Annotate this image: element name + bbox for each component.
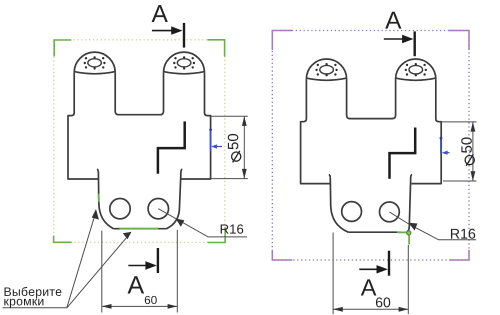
blue pick arrow: [213, 146, 222, 148]
selected edge highlights (green): [99, 194, 159, 229]
section line (thick): [158, 121, 185, 173]
label A top right view: [385, 12, 401, 29]
bolt ellipse towers right view: [320, 65, 423, 74]
callout text: [5, 287, 62, 299]
tower 1 dome: [74, 52, 115, 72]
callout leaders (select edges): [3, 212, 131, 308]
R16 text left: [221, 224, 244, 233]
purple solid corners: [272, 31, 469, 261]
section arrow bottom: [128, 261, 157, 269]
U-boss right edge right view: [409, 175, 412, 226]
U-boss left edge right view: [329, 175, 349, 233]
R16 leader left view: [158, 209, 247, 237]
bolt dots tower 2: [173, 62, 175, 64]
blue selected edge: [210, 129, 212, 151]
U-boss bottom edge: [114, 228, 167, 230]
section line right view (thick): [390, 128, 416, 179]
dim text 60: [145, 296, 157, 304]
selected box edges (solid green corners): [54, 40, 226, 243]
U-boss left edge: [97, 169, 114, 229]
dimension diam 50 left view: [212, 116, 248, 178]
label A top: [152, 5, 168, 22]
tower 1 dome right view: [306, 59, 346, 79]
part outline left view: [68, 52, 211, 229]
section arrow top: [152, 26, 183, 34]
U-boss right corner small fillet: [407, 226, 409, 232]
bolt dots tower 1: [84, 56, 195, 69]
tower 2 dome: [164, 52, 205, 73]
tower 2 top face edge: [164, 72, 205, 74]
U-boss right fillet: [167, 207, 180, 229]
section tick bottom right view: [388, 251, 390, 276]
section tick top: [183, 23, 185, 48]
selection box (purple dashed): [272, 31, 469, 261]
dim text diam 50 right view: [461, 137, 472, 152]
body outline right view: [301, 79, 331, 184]
tower 1 top face edge: [74, 72, 115, 74]
bolt ellipse tower 1: [88, 59, 191, 67]
body outline: [68, 73, 98, 179]
hole circle left: [110, 199, 130, 219]
dimension 60 right view: [333, 233, 408, 315]
R16 leader right view: [389, 212, 476, 240]
U-boss right edge: [180, 169, 183, 207]
section tick bottom: [157, 248, 159, 273]
U-boss bottom edge right view: [348, 231, 401, 233]
section tick top right view: [414, 31, 416, 56]
label A bottom: [128, 276, 145, 293]
green vertex dot: [407, 231, 411, 235]
dim text diam 50: [228, 134, 239, 149]
dimension 60 left view: [102, 230, 178, 313]
dim text 60 right view: [376, 297, 390, 307]
selection box (green dashed): [54, 40, 225, 243]
hole circle right: [148, 199, 168, 219]
section arrow top right view: [384, 38, 403, 40]
section arrow bottom right view: [359, 268, 378, 270]
blue pick arrow right view: [444, 152, 450, 154]
R16 text right view: [451, 229, 475, 239]
green selected edge & vertex right view: [397, 232, 409, 244]
hole circle right right view: [380, 202, 400, 222]
label A bottom right view: [361, 279, 377, 295]
blue selected edge right view: [440, 137, 442, 154]
tower 2 dome right view: [396, 59, 436, 79]
hole circle left right view: [342, 202, 362, 222]
dimension diam 50 right view: [442, 122, 477, 181]
part outline right view: [301, 59, 442, 232]
